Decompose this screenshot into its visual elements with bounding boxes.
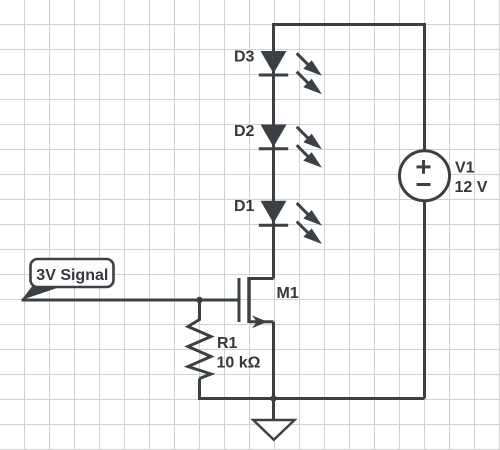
svg-text:10 kΩ: 10 kΩ [217,354,261,371]
svg-text:R1: R1 [217,335,238,352]
svg-text:D2: D2 [234,123,255,140]
svg-text:V1: V1 [455,160,475,177]
svg-text:3V Signal: 3V Signal [36,267,108,284]
svg-text:D1: D1 [234,198,255,215]
svg-text:D3: D3 [234,49,255,66]
svg-text:M1: M1 [277,285,299,302]
svg-text:12 V: 12 V [455,179,488,196]
